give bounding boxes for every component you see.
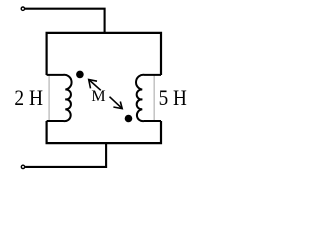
inductor L1 (2 H): [47, 75, 72, 121]
polarity dot for L1: [76, 71, 84, 79]
svg-text:2 H: 2 H: [14, 85, 43, 110]
wire from top terminal to upper bus: [25, 9, 105, 33]
wire lower bus (bottom edge and side rises to inductor bottoms): [47, 121, 161, 143]
inductor L2 core line: [153, 76, 155, 121]
inductor L1 core line: [48, 76, 50, 121]
mutual coupling arrow (lower half, points at L2 dot): [110, 97, 123, 109]
wire from lower bus to bottom terminal: [25, 143, 106, 167]
wire upper bus (top edge and side drops to inductor tops): [47, 33, 161, 75]
polarity dot for L2: [125, 115, 133, 123]
terminal (top): [21, 7, 24, 10]
mutual coupling arrow (upper half, points at L1 dot): [89, 80, 101, 91]
terminal (bottom): [21, 165, 24, 168]
svg-text:5 H: 5 H: [159, 85, 187, 110]
svg-text:M: M: [91, 88, 105, 105]
inductor L2 (5 H): [136, 75, 161, 121]
